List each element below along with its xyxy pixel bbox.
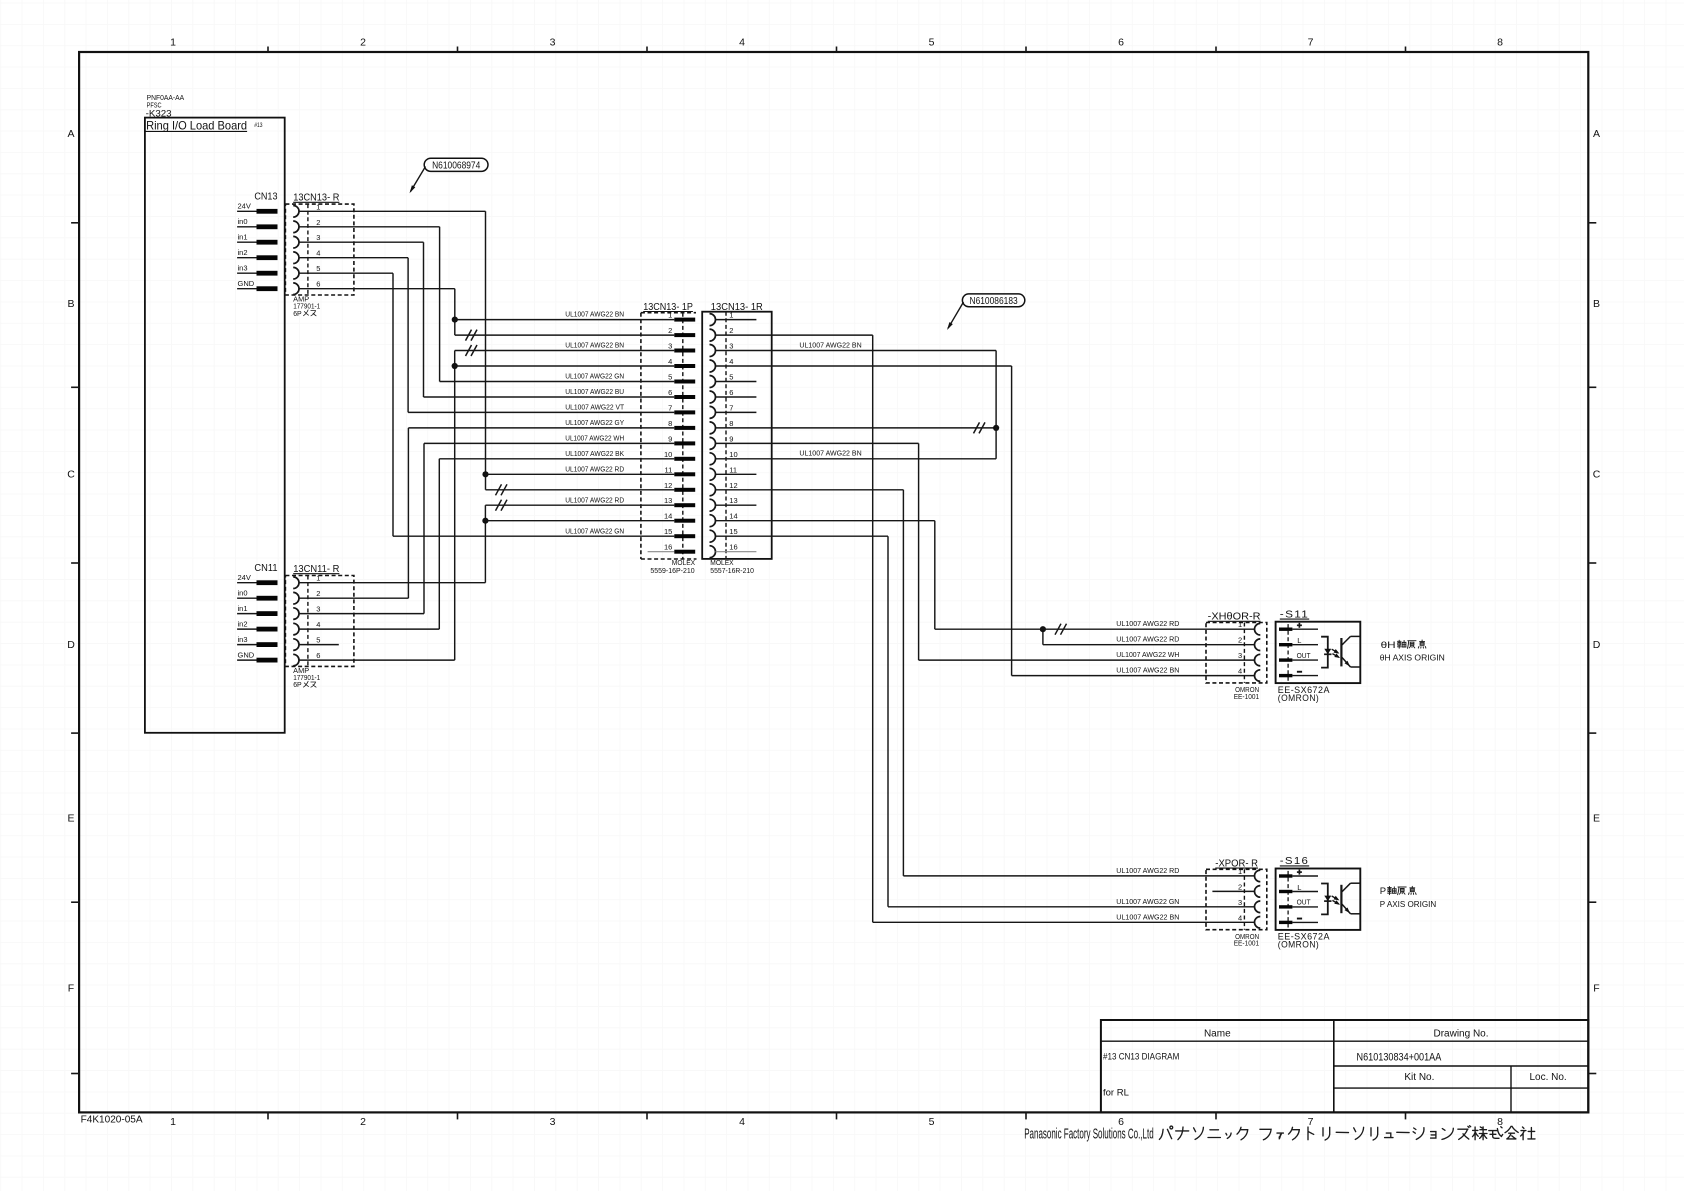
- callout balloon N610086183: [962, 294, 1024, 307]
- svg-text:1: 1: [729, 311, 733, 320]
- svg-text:2: 2: [360, 37, 366, 49]
- svg-text:1: 1: [1238, 867, 1242, 876]
- svg-text:5559-16P-210: 5559-16P-210: [650, 568, 694, 575]
- svg-text:UL1007 AWG22 GN: UL1007 AWG22 GN: [565, 374, 624, 381]
- connector 13CN11-R dashed housing: [285, 576, 354, 667]
- svg-text:GND: GND: [238, 651, 255, 660]
- wire 13CN13-R pin 1 horizontal: [299, 210, 486, 212]
- svg-text:8: 8: [668, 419, 672, 428]
- wire net 24V 1R3-1R8-1R10: [995, 351, 997, 459]
- svg-text:1: 1: [1238, 620, 1242, 629]
- connector 13CN13-1R pin 6 socket: [710, 391, 716, 403]
- svg-text:(OMRON): (OMRON): [1278, 693, 1319, 704]
- connector 13CN13-1P pin 5 plug bar: [674, 380, 695, 384]
- connector 13CN13-1R pin 14 socket: [710, 515, 716, 527]
- wire from 13CN13-1R pin 12: [716, 489, 904, 491]
- connector -XPOR-R dashed housing: [1206, 869, 1267, 929]
- wire from 13CN13-1R pin 9: [716, 442, 919, 444]
- connector 13CN13-1R pin 8 socket: [710, 422, 716, 434]
- svg-text:5: 5: [929, 1116, 935, 1128]
- svg-text:6: 6: [668, 388, 672, 397]
- svg-text:4: 4: [316, 249, 320, 258]
- svg-text:E: E: [1593, 813, 1600, 825]
- row letters right: [1593, 128, 1601, 995]
- wire net CN11-GND vertical: [454, 351, 456, 661]
- svg-text:UL1007 AWG22 RD: UL1007 AWG22 RD: [565, 466, 624, 473]
- svg-text:6: 6: [316, 651, 320, 660]
- connector 13CN13-R pin 3 socket: [293, 236, 299, 248]
- connector 13CN13-1P pin 14 plug bar: [674, 519, 695, 523]
- svg-text:4: 4: [1238, 667, 1242, 676]
- connector 13CN11-R pin 3 socket: [293, 608, 299, 620]
- sensor S16 pin OUT bar and lead: [1279, 905, 1292, 908]
- svg-text:5: 5: [729, 373, 733, 382]
- svg-text:Panasonic Factory Solutions Co: Panasonic Factory Solutions Co.,Ltd: [1024, 1126, 1154, 1143]
- svg-text:in0: in0: [238, 217, 248, 226]
- svg-text:OUT: OUT: [1297, 900, 1312, 907]
- svg-text:(OMRON): (OMRON): [1278, 940, 1319, 951]
- svg-text:6: 6: [729, 388, 733, 397]
- svg-text:8: 8: [729, 419, 733, 428]
- svg-text:EE-1001: EE-1001: [1234, 941, 1259, 948]
- wire into XPOR-R pin 3: [888, 906, 1255, 908]
- svg-text:CN13: CN13: [254, 192, 277, 203]
- svg-text:UL1007 AWG22 GN: UL1007 AWG22 GN: [1116, 899, 1179, 906]
- twisted-pair marks 1P pin3: [466, 345, 472, 356]
- connector CN11 pin in3 contact bar: [257, 642, 278, 647]
- svg-text:N610130834+001AA: N610130834+001AA: [1357, 1052, 1442, 1064]
- wire into 13CN13-1P pin 11: [486, 473, 675, 475]
- svg-text:A: A: [1593, 128, 1600, 140]
- wire from 13CN13-1R pin 2: [716, 334, 873, 336]
- svg-text:1: 1: [668, 311, 672, 320]
- title block table: [1101, 1020, 1588, 1112]
- wire into XPOR-R pin 4: [873, 921, 1255, 923]
- svg-text:C: C: [1593, 469, 1601, 481]
- twisted-pair marks S11 + wire: [1055, 624, 1061, 635]
- wire 13CN11-R pin 1 horizontal: [299, 582, 485, 584]
- svg-text:θH: θH: [1381, 640, 1396, 651]
- svg-text:16: 16: [664, 543, 672, 552]
- svg-text:UL1007 AWG22 BN: UL1007 AWG22 BN: [799, 342, 861, 349]
- svg-text:F4K1020-05A: F4K1020-05A: [81, 1114, 143, 1125]
- svg-text:UL1007 AWG22 BN: UL1007 AWG22 BN: [1116, 668, 1179, 675]
- svg-text:7: 7: [668, 403, 672, 412]
- connector -XH&#952;OR-R pin 2 socket: [1255, 639, 1261, 651]
- wire 13CN13-R pin 4 horizontal: [299, 257, 408, 259]
- sensor S11 LED: [1324, 649, 1331, 655]
- wire into XH0R-R pin 2: [1043, 644, 1255, 646]
- svg-text:11: 11: [665, 465, 673, 474]
- connector 13CN11-R pin 4 socket: [293, 623, 299, 635]
- wire net S11 + to L branch: [1042, 629, 1044, 645]
- wire stub 13CN13-1R pin 13: [716, 504, 757, 506]
- junction CN13-24V to 1P pin11: [482, 471, 488, 477]
- svg-text:in2: in2: [238, 620, 248, 629]
- svg-text:B: B: [67, 298, 74, 310]
- twisted-pair marks 1R pin8 wire: [974, 422, 980, 433]
- svg-text:C: C: [67, 469, 75, 481]
- connector 13CN13-1R pin 2 socket: [710, 329, 716, 341]
- sensor S16 pin - bar and lead: [1279, 921, 1292, 924]
- connector 13CN13-1P pin 4 plug bar: [674, 364, 695, 368]
- svg-text:θH AXIS ORIGIN: θH AXIS ORIGIN: [1380, 653, 1445, 663]
- svg-text:14: 14: [729, 512, 737, 521]
- connector 13CN13-1P pin 10 plug bar: [674, 457, 695, 461]
- callout leader N610086183: [948, 302, 964, 328]
- svg-text:3: 3: [668, 342, 672, 351]
- connector 13CN13-1R pin 16 socket: [710, 546, 716, 558]
- column numbers bottom: [170, 1116, 1503, 1128]
- callout balloon N610068974: [424, 158, 488, 171]
- wire from 13CN13-1R pin 15: [716, 535, 889, 537]
- connector 13CN13-1P dashed housing (left/top/bottom): [640, 313, 642, 559]
- svg-text:D: D: [1593, 639, 1601, 651]
- svg-text:3: 3: [550, 37, 556, 49]
- connector CN11 pin in2 contact bar: [257, 627, 278, 632]
- svg-text:24V: 24V: [238, 573, 251, 582]
- wire into 13CN13-1P pin 8: [408, 427, 674, 429]
- svg-text:#13 CN13 DIAGRAM: #13 CN13 DIAGRAM: [1103, 1052, 1179, 1063]
- svg-text:UL1007 AWG22 BN: UL1007 AWG22 BN: [565, 343, 624, 350]
- svg-text:10: 10: [729, 450, 737, 459]
- svg-text:D: D: [67, 639, 75, 651]
- svg-text:13: 13: [664, 496, 672, 505]
- connector 13CN13-1P pin 8 plug bar: [674, 426, 695, 430]
- connector 13CN13-1R housing: [702, 312, 772, 559]
- wire net CN11-in2 vertical: [438, 459, 440, 629]
- svg-text:13: 13: [729, 496, 737, 505]
- twisted-pair marks 1P pin12: [496, 484, 502, 495]
- connector 13CN13-R pin 4 socket: [293, 252, 299, 264]
- wire into XPOR-R pin 1: [903, 875, 1254, 877]
- wire into 13CN13-1P pin 7: [408, 411, 674, 413]
- wire net CN11-in1 vertical: [423, 443, 425, 613]
- svg-text:8: 8: [1497, 1116, 1503, 1128]
- wire stub XPOR-R pin 2: [1212, 890, 1254, 892]
- svg-text:for RL: for RL: [1103, 1088, 1129, 1099]
- svg-text:4: 4: [668, 357, 672, 366]
- svg-text:OUT: OUT: [1297, 653, 1312, 660]
- sensor S11 pin + bar and lead: [1279, 628, 1292, 631]
- connector CN13 pin GND contact bar: [257, 286, 278, 291]
- connector 13CN13-1R inner dashed line: [725, 312, 727, 559]
- svg-text:3: 3: [1238, 651, 1242, 660]
- svg-text:1: 1: [170, 37, 176, 49]
- connector 13CN11-R pin 6 socket: [293, 654, 299, 666]
- connector -XH&#952;OR-R pin 3 socket: [1255, 654, 1261, 666]
- wire net CN13-24V vertical: [485, 211, 487, 490]
- svg-text:9: 9: [729, 434, 733, 443]
- wire net 1R12 to S16 RD: [902, 490, 904, 876]
- connector CN13 pin in2 contact bar: [257, 255, 278, 260]
- svg-text:UL1007 AWG22 BN: UL1007 AWG22 BN: [799, 451, 861, 458]
- svg-text:Ring I/O Load Board: Ring I/O Load Board: [146, 118, 247, 132]
- connector 13CN13-1R pin 7 socket: [710, 406, 716, 418]
- sensor S16 pin + bar and lead: [1279, 874, 1292, 877]
- svg-text:L: L: [1297, 636, 1301, 645]
- connector CN13 pin in3 contact bar: [257, 271, 278, 276]
- svg-text:UL1007 AWG22 BN: UL1007 AWG22 BN: [1116, 914, 1179, 921]
- connector 13CN13-1R pin 9 socket: [710, 437, 716, 449]
- svg-text:B: B: [1593, 298, 1600, 310]
- wire 13CN11-R pin 5 stub: [299, 644, 339, 646]
- wire net CN13-in2 vertical: [407, 258, 409, 413]
- svg-text:177901-1: 177901-1: [293, 675, 320, 682]
- sensor S11 inner dashed line: [1287, 624, 1289, 681]
- wire net CN11-24V vertical: [484, 505, 486, 583]
- wire stub 13CN13-1R pin 5: [716, 381, 757, 383]
- connector CN13 pin in1 contact bar: [257, 240, 278, 245]
- svg-text:3: 3: [729, 342, 733, 351]
- wire into 13CN13-1P pin 10: [439, 458, 674, 460]
- svg-text:7: 7: [1308, 1116, 1314, 1128]
- wire net 1R4 to S11 BN: [1011, 366, 1013, 676]
- wire 13CN13-R pin 3 horizontal: [299, 241, 424, 243]
- wire stub 13CN13-1R pin 11: [716, 473, 757, 475]
- wire stub 13CN13-1R pin 16: [716, 551, 757, 553]
- svg-text:Name: Name: [1204, 1029, 1231, 1040]
- connector -XPOR-R inner dashed line: [1243, 869, 1245, 929]
- svg-text:UL1007 AWG22 GY: UL1007 AWG22 GY: [565, 420, 624, 427]
- svg-text:in1: in1: [238, 604, 248, 613]
- svg-text:UL1007 AWG22 BU: UL1007 AWG22 BU: [565, 389, 624, 396]
- svg-text:7: 7: [1308, 37, 1314, 49]
- connector 13CN13-1P inner dashed line: [682, 313, 684, 559]
- svg-text:UL1007 AWG22 WH: UL1007 AWG22 WH: [1116, 652, 1179, 659]
- svg-text:in0: in0: [238, 589, 248, 598]
- sensor S11 pin - bar and lead: [1279, 674, 1292, 677]
- connector 13CN13-1P pin 11 plug bar: [674, 472, 695, 476]
- connector 13CN11-R inner dashed line: [307, 576, 309, 667]
- connector -XPOR-R pin 2 socket: [1255, 886, 1261, 898]
- svg-text:UL1007 AWG22 VT: UL1007 AWG22 VT: [565, 405, 624, 412]
- svg-text:PNF0AA-AA: PNF0AA-AA: [147, 95, 185, 102]
- connector 13CN13-1R pin 13 socket: [710, 499, 716, 511]
- svg-text:UL1007 AWG22 RD: UL1007 AWG22 RD: [565, 497, 624, 504]
- wire net 1R14 to S11 RD: [934, 521, 936, 630]
- drawing frame border: [79, 52, 1588, 1112]
- svg-text:2: 2: [316, 218, 320, 227]
- svg-text:UL1007 AWG22 BK: UL1007 AWG22 BK: [565, 451, 624, 458]
- connector 13CN13-1R pin 1 socket: [710, 314, 716, 326]
- connector CN13 pin 24V contact bar: [257, 209, 278, 214]
- wire 13CN11-R pin 2 horizontal: [299, 597, 408, 599]
- wire into 13CN13-1P pin 4: [455, 365, 675, 367]
- svg-text:9: 9: [668, 434, 672, 443]
- connector -XH&#952;OR-R pin 4 socket: [1255, 670, 1261, 682]
- svg-text:in3: in3: [238, 635, 248, 644]
- svg-text:3: 3: [1238, 898, 1242, 907]
- svg-text:AMP: AMP: [293, 668, 309, 675]
- connector 13CN13-1P pin 9 plug bar: [674, 441, 695, 445]
- svg-text:4: 4: [316, 620, 320, 629]
- svg-text:in3: in3: [238, 264, 248, 273]
- wire into XH0R-R pin 1: [935, 628, 1255, 630]
- wire into 13CN13-1P pin 14: [485, 520, 674, 522]
- wire into 13CN13-1P pin 1: [455, 319, 675, 321]
- svg-text:UL1007 AWG22 RD: UL1007 AWG22 RD: [1116, 621, 1179, 628]
- svg-text:2: 2: [1238, 882, 1242, 891]
- connector 13CN13-R pin 6 socket: [293, 283, 299, 295]
- connector 13CN13-1P pin 2 plug bar: [674, 333, 695, 337]
- wire net CN13-GND vertical: [454, 289, 456, 335]
- svg-text:3: 3: [550, 1116, 556, 1128]
- connector -XH&#952;OR-R dashed housing: [1206, 623, 1267, 683]
- svg-text:16: 16: [729, 543, 737, 552]
- wire net 1R2-GND to S16 BN: [872, 335, 874, 922]
- connector 13CN13-R pin 2 socket: [293, 221, 299, 233]
- sensor S16 light arrows: [1332, 896, 1338, 900]
- connector 13CN11-R pin 1 socket: [293, 577, 299, 589]
- wire 13CN11-R pin 6 horizontal: [299, 659, 455, 661]
- svg-text:5557-16R-210: 5557-16R-210: [710, 568, 754, 575]
- connector 13CN13-1P pin 1 plug bar: [674, 318, 695, 322]
- svg-text:6: 6: [316, 280, 320, 289]
- twisted-pair marks 1P pin13: [496, 500, 502, 511]
- wire 13CN13-R pin 6 horizontal: [299, 288, 455, 290]
- svg-text:UL1007 AWG22 BN: UL1007 AWG22 BN: [565, 312, 624, 319]
- connector 13CN13-1R pin 3 socket: [710, 345, 716, 357]
- svg-text:F: F: [68, 983, 74, 995]
- wire stub 13CN13-1R pin 7: [716, 411, 757, 413]
- connector CN13 pin in0 contact bar: [257, 224, 278, 229]
- svg-text:24V: 24V: [238, 202, 251, 211]
- svg-text:N610068974: N610068974: [432, 160, 481, 171]
- junction CN13-GND to 1P pin1: [452, 317, 458, 323]
- wire from 13CN13-1R pin 4: [716, 365, 1012, 367]
- svg-text:14: 14: [664, 512, 672, 521]
- wire from 13CN13-1R pin 8: [716, 427, 997, 429]
- wire net 1R15 to S16 GN: [887, 536, 889, 907]
- svg-text:UL1007 AWG22 WH: UL1007 AWG22 WH: [565, 436, 624, 443]
- sensor S11 box: [1276, 622, 1361, 683]
- connector -XH&#952;OR-R pin 1 socket: [1255, 623, 1261, 635]
- svg-text:5: 5: [316, 636, 320, 645]
- junction S11 branch: [1040, 626, 1046, 632]
- wire into 13CN13-1P pin 15: [393, 535, 674, 537]
- svg-text:6P: 6P: [293, 682, 302, 689]
- row letters left: [67, 128, 75, 995]
- sensor S16 LED: [1324, 896, 1331, 902]
- svg-text:4: 4: [739, 1116, 745, 1128]
- svg-text:UL1007 AWG22 RD: UL1007 AWG22 RD: [1116, 868, 1179, 875]
- wire net CN13-in0 vertical: [439, 227, 441, 382]
- connector CN11 pin 24V contact bar: [257, 580, 278, 585]
- connector 13CN11-R pin 2 socket: [293, 592, 299, 604]
- wire 13CN13-R pin 2 horizontal: [299, 226, 440, 228]
- svg-text:UL1007 AWG22 RD: UL1007 AWG22 RD: [1116, 637, 1179, 644]
- connector -XPOR-R pin 4 socket: [1255, 917, 1261, 929]
- connector 13CN13-1P pin 6 plug bar: [674, 395, 695, 399]
- connector 13CN13-1P pin 7 plug bar: [674, 410, 695, 414]
- svg-text:1: 1: [316, 574, 320, 583]
- svg-text:A: A: [67, 128, 74, 140]
- connector 13CN13-1R pin 4 socket: [710, 360, 716, 372]
- svg-text:F: F: [1593, 983, 1599, 995]
- connector 13CN13-1P pin 15 plug bar: [674, 534, 695, 538]
- wire from 13CN13-1R pin 10: [716, 458, 997, 460]
- svg-text:MOLEX: MOLEX: [710, 560, 734, 567]
- wire 13CN11-R pin 4 horizontal: [299, 628, 439, 630]
- connector 13CN13-1P pin 12 plug bar: [674, 488, 695, 492]
- svg-text:15: 15: [729, 527, 737, 536]
- sensor S11 light arrows: [1332, 649, 1338, 653]
- sensor S11 LED bracket: [1321, 637, 1328, 668]
- connector 13CN13-R pin 5 socket: [293, 267, 299, 279]
- sensor S16 LED bracket: [1321, 884, 1328, 915]
- svg-text:GND: GND: [238, 279, 255, 288]
- svg-text:in2: in2: [238, 248, 248, 257]
- svg-text:5: 5: [668, 373, 672, 382]
- wire into 13CN13-1P pin 2: [455, 334, 675, 336]
- svg-text:11: 11: [729, 465, 737, 474]
- connector 13CN13-1R pin 12 socket: [710, 484, 716, 496]
- sensor S11 pin OUT bar and lead: [1279, 658, 1292, 661]
- wire stub 13CN13-1R pin 1: [716, 319, 757, 321]
- svg-text:Loc. No.: Loc. No.: [1529, 1072, 1566, 1083]
- sensor S11 phototransistor: [1340, 638, 1342, 666]
- svg-text:7: 7: [729, 403, 733, 412]
- callout leader N610068974: [411, 167, 426, 192]
- svg-text:6P: 6P: [293, 311, 302, 318]
- wire into 13CN13-1P pin 13: [485, 504, 674, 506]
- connector CN11 pin in0 contact bar: [257, 596, 278, 601]
- frame column ticks bottom: [268, 1112, 1406, 1119]
- wire into 13CN13-1P pin 9: [424, 442, 674, 444]
- svg-text:8: 8: [1497, 37, 1503, 49]
- sensor S16 inner dashed line: [1287, 871, 1289, 928]
- connector 13CN13-1R pin 5 socket: [710, 376, 716, 388]
- svg-text:in1: in1: [238, 233, 248, 242]
- svg-text:4: 4: [729, 357, 733, 366]
- connector -XPOR-R pin 1 socket: [1255, 870, 1261, 882]
- sensor S16 phototransistor: [1340, 885, 1342, 913]
- wire from 13CN13-1R pin 14: [716, 520, 935, 522]
- twisted-pair marks 1P pin2: [466, 330, 472, 341]
- wire stub 13CN13-1P pin 16: [648, 551, 675, 553]
- frame column ticks top: [268, 47, 1406, 53]
- wire net CN13-in1 vertical: [423, 242, 425, 397]
- wire 13CN11-R pin 3 horizontal: [299, 613, 424, 615]
- connector 13CN13-1P pin 16 plug bar: [674, 550, 695, 554]
- connector 13CN13-1R pin 10 socket: [710, 453, 716, 465]
- svg-text:2: 2: [729, 326, 733, 335]
- svg-text:Kit No.: Kit No.: [1404, 1072, 1434, 1083]
- column numbers top: [170, 37, 1503, 49]
- svg-text:4: 4: [1238, 913, 1242, 922]
- svg-text:3: 3: [316, 605, 320, 614]
- wire into XH0R-R pin 3: [919, 659, 1255, 661]
- svg-text:1: 1: [170, 1116, 176, 1128]
- svg-text:EE-1001: EE-1001: [1234, 694, 1259, 701]
- svg-text:15: 15: [664, 527, 672, 536]
- connector 13CN11-R pin 5 socket: [293, 639, 299, 651]
- svg-text:AMP: AMP: [293, 297, 309, 304]
- connector -XPOR-R pin 3 socket: [1255, 901, 1261, 913]
- wire net CN11-in0 vertical: [407, 428, 409, 598]
- svg-text:1: 1: [316, 202, 320, 211]
- frame row ticks left: [71, 223, 79, 1074]
- svg-text:N610086183: N610086183: [970, 296, 1019, 307]
- svg-text:5: 5: [929, 37, 935, 49]
- svg-text:MOLEX: MOLEX: [672, 560, 696, 567]
- bottom company name kana: [1159, 1126, 1535, 1140]
- svg-text:177901-1: 177901-1: [293, 304, 320, 311]
- svg-text:4: 4: [739, 37, 745, 49]
- svg-text:CN11: CN11: [254, 563, 278, 574]
- connector CN11 pin in1 contact bar: [257, 611, 278, 616]
